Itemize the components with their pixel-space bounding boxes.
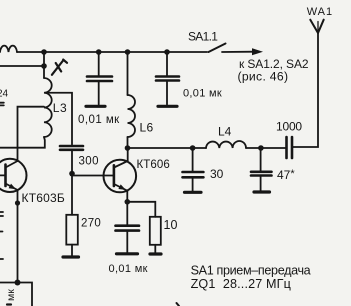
transistor Q2 KT606 [72, 160, 136, 193]
svg-text:мк: мк [5, 289, 17, 301]
svg-text:270: 270 [81, 218, 101, 230]
capacitor 300 [60, 146, 83, 150]
capacitor C 0,01 mk third [126, 202, 128, 225]
node junction C47 [258, 145, 264, 151]
ground [86, 105, 105, 108]
svg-text:300: 300 [79, 156, 99, 168]
wire bottom right bend down [18, 283, 33, 306]
svg-text:47*: 47* [277, 168, 295, 182]
switch SA1.1 [209, 44, 226, 53]
transistor Q1 KT603B [0, 159, 27, 192]
wire L4 to C1000 [246, 147, 286, 149]
ground [63, 255, 79, 258]
node junction rail / L3 [41, 49, 47, 55]
wire second rail (cut off at left edge) [0, 65, 44, 67]
resistor 270 [71, 174, 73, 215]
wire L3 bottom to left edge [0, 137, 45, 148]
svg-text:0,01 мк: 0,01 мк [78, 114, 120, 126]
capacitor C 0,01 mk second [166, 52, 168, 76]
inductor L4 [206, 141, 246, 148]
svg-text:0,01 мк: 0,01 мк [109, 263, 148, 275]
wire emitter to R10 [127, 202, 155, 217]
speck bottom edge [177, 303, 180, 306]
inductor L6 [127, 52, 129, 95]
wire L3 top lead [43, 52, 45, 78]
wire L3 lower tap to Q1 collector [18, 107, 45, 161]
svg-text:SA1.1: SA1.1 [188, 30, 218, 44]
ground [158, 105, 177, 108]
wire L3 upper tap to C300 [45, 93, 72, 145]
node junction L6 / Q2 collector / output [125, 145, 131, 151]
wire bottom to left edge [0, 282, 18, 284]
svg-text:(рис. 46): (рис. 46) [238, 70, 289, 84]
arrow to SA1.2 [222, 51, 255, 53]
svg-text:L4: L4 [218, 124, 232, 138]
ground [150, 252, 161, 255]
svg-text:30: 30 [210, 167, 224, 181]
svg-text:24: 24 [0, 89, 9, 100]
node junction rail / L6 [125, 49, 131, 55]
svg-text:1000: 1000 [276, 120, 302, 134]
wire top rail [17, 51, 207, 53]
node emitter tap [15, 200, 20, 205]
ground [185, 191, 202, 194]
node junction second rail / L3 [41, 63, 47, 69]
resistor 10 [150, 217, 161, 245]
svg-text:10: 10 [164, 218, 178, 232]
capacitor 1000 [287, 137, 293, 158]
inductor L3 [44, 78, 52, 137]
capacitor 30 [192, 148, 194, 172]
svg-text:L3: L3 [53, 101, 67, 115]
inductor L (top-left, cut off at edge) [0, 46, 17, 52]
wire C300 to base node [71, 150, 73, 174]
node junction rail / C 0,01 second [164, 49, 170, 55]
node junction Q2 emitter [125, 199, 131, 205]
ground [117, 252, 138, 255]
label residue marks (cut off at edge) [0, 102, 4, 104]
svg-text:SA1 прием–передача: SA1 прием–передача [191, 263, 311, 277]
node bottom junction [15, 280, 21, 286]
svg-text:0,01 мк: 0,01 мк [183, 88, 222, 100]
node junction C30 [190, 145, 196, 151]
svg-text:L6: L6 [140, 121, 154, 135]
left edge stub marks [0, 211, 3, 213]
svg-text:WA1: WA1 [307, 6, 333, 18]
svg-text:КТ606: КТ606 [137, 159, 170, 171]
capacitor 47* [260, 148, 262, 172]
wire antenna down to C1000 [293, 33, 318, 147]
svg-text:КТ603Б: КТ603Б [22, 191, 65, 205]
node junction C300 / R270 / Q2 base [69, 171, 75, 177]
wire Q1 emitter down [17, 190, 19, 283]
svg-text:ZQ1 28...27 МГц: ZQ1 28...27 МГц [191, 277, 291, 291]
wire output node to L4 [128, 147, 207, 149]
capacitor C 0,01 mk first [98, 52, 100, 76]
node junction rail / C 0,01 [96, 49, 102, 55]
wire Q2 emitter down [126, 191, 128, 202]
partial glyph bottom left [7, 303, 11, 305]
adjustment arrow on L3 [52, 60, 67, 75]
ground [254, 190, 270, 193]
wire Q2 collector up [127, 148, 129, 161]
